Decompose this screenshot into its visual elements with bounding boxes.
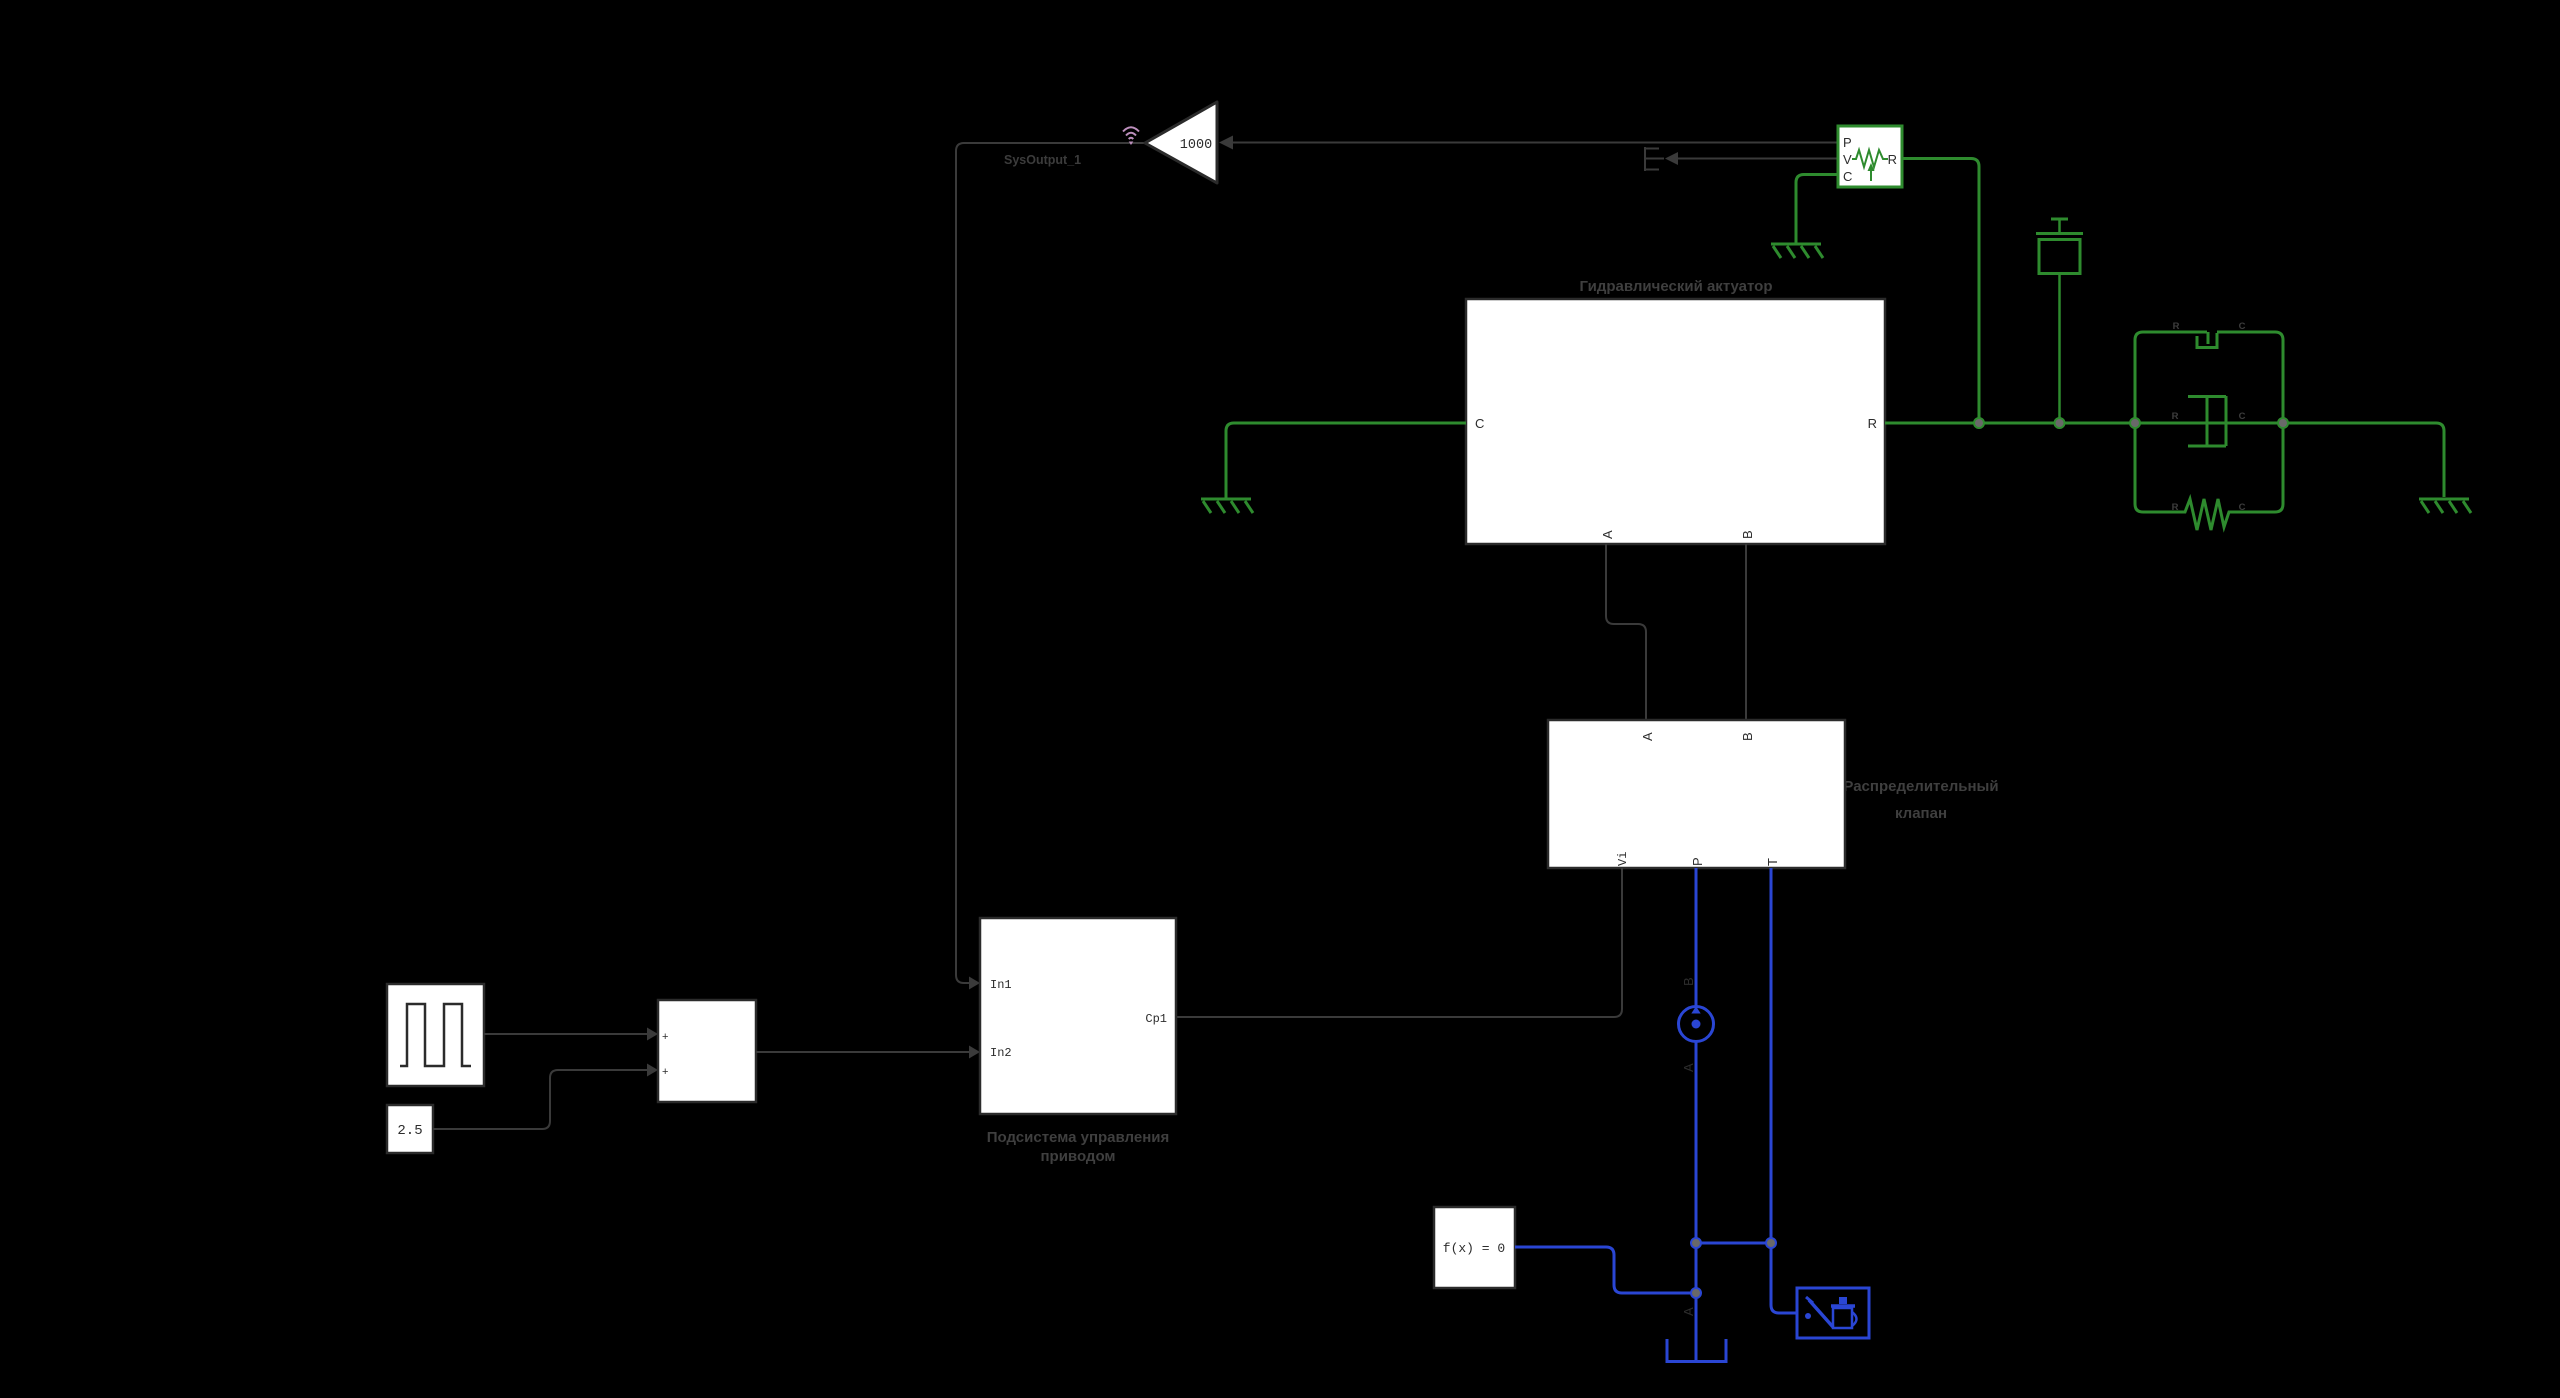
wire: T junction to oil properties block (1771, 1243, 1797, 1313)
wire: P-T link (1696, 1242, 1771, 1245)
svg-text:P: P (1843, 135, 1852, 150)
sensor resistor icon (1852, 150, 1888, 167)
hydraulic pressure source (pump) (1679, 1007, 1714, 1042)
svg-text:C: C (2239, 411, 2246, 422)
svg-text:C: C (1843, 169, 1852, 184)
pulse generator block (387, 984, 484, 1086)
translational motion sensor block (1838, 126, 1902, 187)
junction node (network right) (2278, 418, 2288, 428)
svg-text:2.5: 2.5 (397, 1123, 422, 1139)
gain block 1000 (1145, 102, 1217, 183)
svg-text:+: + (662, 1066, 668, 1078)
f(x)=0 solver block (1434, 1207, 1515, 1288)
svg-text:A: A (1640, 732, 1655, 741)
wire: sum to subsystem In2 (756, 1051, 971, 1053)
arrowhead into In1 (969, 977, 980, 990)
terminator bracket (1645, 147, 1664, 171)
wire: actuator A to valve A (1606, 544, 1646, 720)
wire: sensor R down to mechanical bus (1902, 159, 1979, 424)
mechanical reference ground (sensor) (1771, 244, 1823, 258)
sum block (658, 1000, 756, 1102)
svg-text:клапан: клапан (1895, 805, 1947, 822)
svg-text:R: R (1888, 152, 1897, 167)
mechanical reference ground (actuator) (1201, 499, 1253, 513)
svg-text:Vi: Vi (1616, 852, 1630, 866)
svg-text:C: C (2239, 321, 2246, 332)
wire: actuator R mechanical bus to right ground (1885, 423, 2444, 497)
svg-text:R: R (2173, 321, 2180, 332)
svg-text:Cp1: Cp1 (1145, 1012, 1167, 1026)
wire: junction down to tank (1695, 1243, 1698, 1360)
wire: pulse to sum (484, 1033, 649, 1035)
junction node (P-T link left) (1691, 1238, 1701, 1248)
svg-text:1000: 1000 (1180, 138, 1212, 153)
svg-text:A: A (1681, 1063, 1696, 1072)
pulse generator waveform icon (400, 1004, 471, 1066)
wire: constant to sum (433, 1070, 649, 1129)
svg-text:P: P (1690, 857, 1705, 866)
subsystem block (980, 918, 1176, 1114)
svg-text:In1: In1 (990, 978, 1012, 992)
arrowhead into terminator (1665, 152, 1678, 165)
svg-text:In2: In2 (990, 1046, 1012, 1060)
damper branch (2135, 396, 2283, 446)
signal logging badge (wifi) (1123, 127, 1139, 139)
directional valve block (1548, 720, 1845, 868)
svg-text:Подсистема управления: Подсистема управления (987, 1129, 1170, 1146)
hard stop branch (2143, 332, 2275, 348)
wire: sensor C to mechanical reference (1796, 175, 1838, 244)
svg-text:A: A (1681, 1307, 1696, 1316)
svg-text:Распределительный: Распределительный (1843, 778, 1998, 795)
svg-text:R: R (1868, 416, 1877, 431)
svg-text:T: T (1765, 858, 1780, 866)
svg-text:SysOutput_1: SysOutput_1 (1004, 153, 1081, 167)
svg-text:B: B (1681, 977, 1696, 986)
svg-text:C: C (1475, 416, 1484, 431)
spring branch (2143, 499, 2275, 530)
wire: subsystem Cp1 to valve Vi (1176, 868, 1622, 1017)
wire: valve P down through pump to junction (1695, 868, 1698, 1243)
svg-text:R: R (2172, 411, 2179, 422)
custom hydraulic fluid (oil) block (1797, 1288, 1869, 1338)
svg-text:V: V (1843, 152, 1852, 167)
mass block (2036, 219, 2083, 423)
wire: feedback from gain output to subsystem In1 (956, 143, 1145, 983)
svg-text:f(x) = 0: f(x) = 0 (1443, 1241, 1505, 1256)
junction node (solver tap) (1691, 1288, 1701, 1298)
wire: valve T down to junction (1770, 868, 1773, 1243)
junction node (sensor tap) (1974, 418, 1984, 428)
svg-text:B: B (1740, 732, 1755, 741)
svg-text:+: + (662, 1031, 668, 1043)
svg-text:A: A (1600, 530, 1615, 539)
junction node (mass tap) (2055, 418, 2065, 428)
spring-damper-hardstop network left rail (2135, 332, 2143, 512)
wire: solver to hydraulic net (1515, 1247, 1696, 1293)
tank (reservoir) (1667, 1339, 1726, 1362)
sensor arrow icon (1870, 169, 1872, 181)
wire: actuator B to valve B (1745, 544, 1747, 720)
svg-text:R: R (2172, 502, 2179, 513)
wire: actuator C to mechanical reference (1226, 423, 1466, 498)
svg-text:B: B (1740, 530, 1755, 539)
network right rail (2275, 332, 2283, 512)
arrowhead into gain input (1219, 136, 1233, 150)
mechanical reference ground (right) (2419, 499, 2471, 513)
hydraulic actuator block (1466, 299, 1885, 544)
junction node (P-T link right) (1766, 1238, 1776, 1248)
wire: sensor V to terminator (1678, 158, 1838, 160)
junction node (network left) (2130, 418, 2140, 428)
svg-text:C: C (2239, 502, 2246, 513)
constant block 2.5 (387, 1105, 433, 1153)
wire: sensor P to gain input (1232, 142, 1838, 144)
oil can icon (1806, 1297, 1857, 1328)
svg-text:Гидравлический актуатор: Гидравлический актуатор (1580, 278, 1773, 295)
svg-text:приводом: приводом (1040, 1148, 1115, 1165)
